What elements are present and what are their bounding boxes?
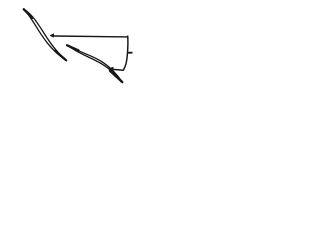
- arrow 1 horizontal segment (top): [54, 35, 129, 38]
- line 1 thick top cap: [24, 9, 33, 17]
- arrowhead 1: [50, 34, 54, 38]
- line 1 thick bottom cap: [55, 51, 66, 60]
- sketchy diagonal line 2 (lower middle-right), double stroke: [67, 45, 123, 82]
- line 2 thick right cap: [110, 71, 122, 82]
- line 2 thick left cap: [67, 45, 78, 50]
- elbow arrow connectors: [54, 36, 133, 71]
- shared origin stub: [127, 52, 133, 54]
- arrowhead 2: [108, 67, 113, 71]
- sketchy diagonal line 1 (upper left), double stroke: [24, 9, 67, 61]
- shared vertical segment (right) + arrow 2 horizontal segment: [113, 36, 128, 71]
